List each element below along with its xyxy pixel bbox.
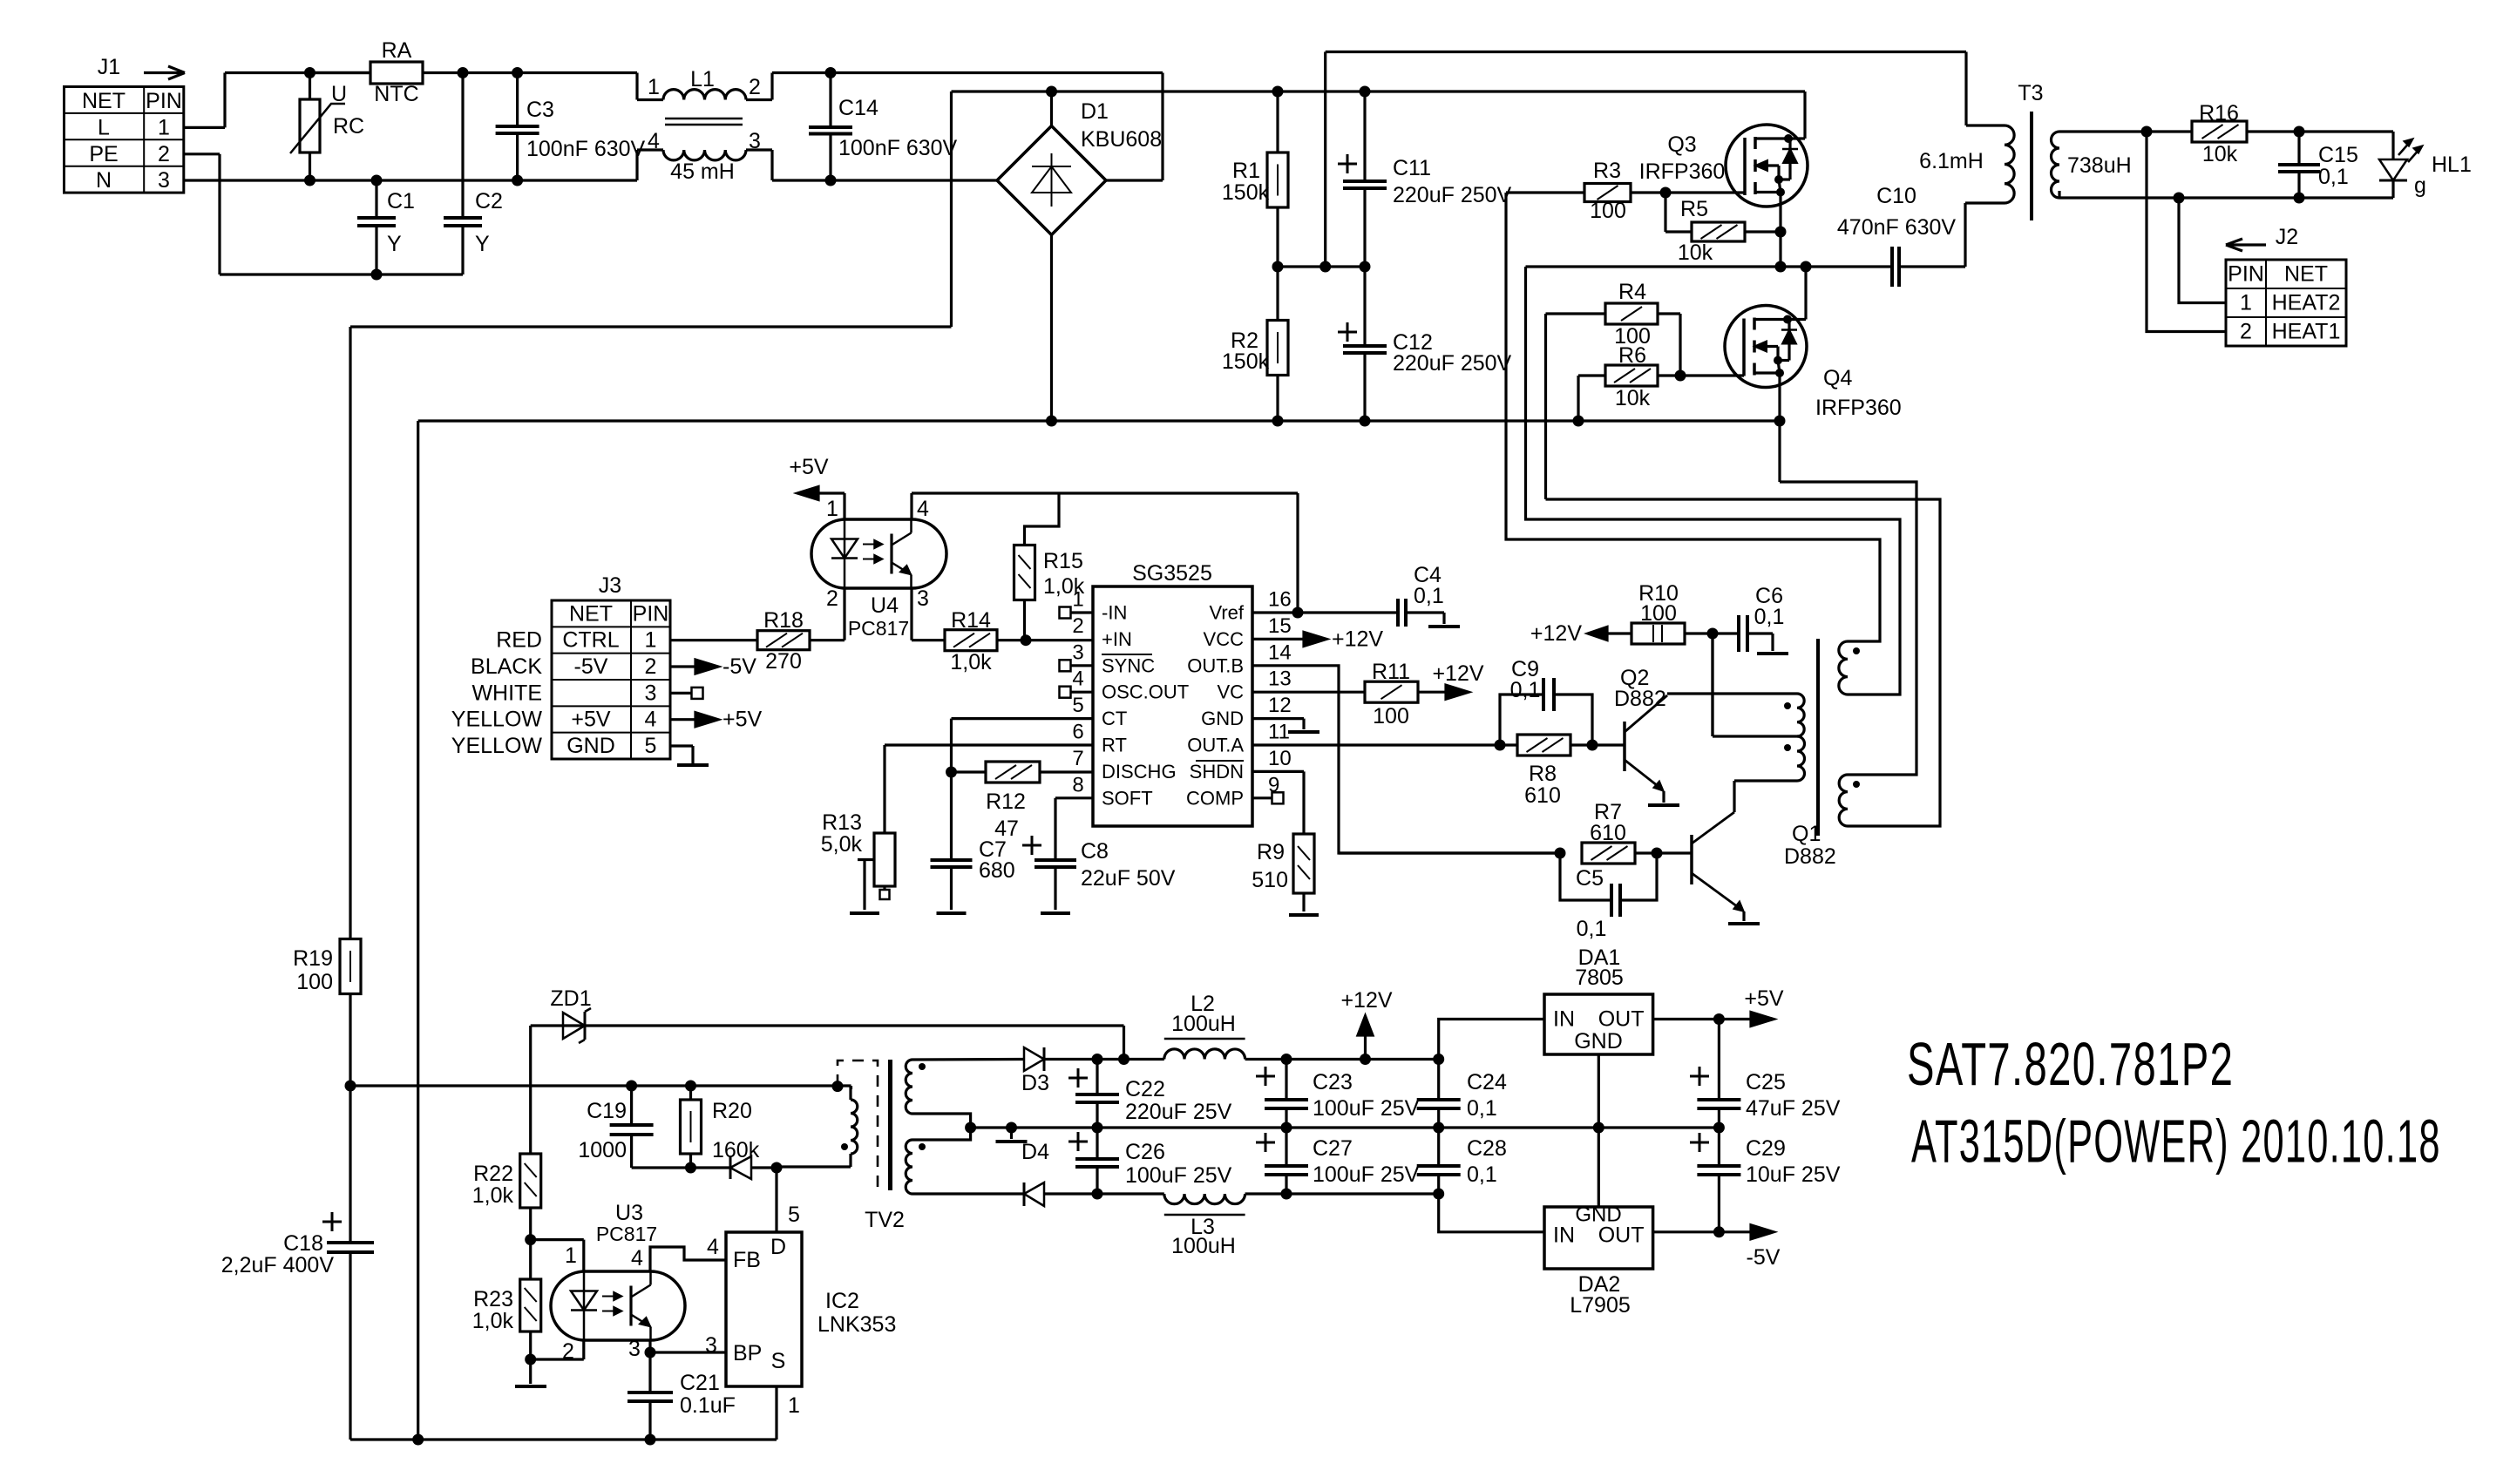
svg-text:RA: RA [382, 38, 412, 63]
svg-text:+5V: +5V [789, 455, 829, 479]
svg-text:R19: R19 [293, 946, 333, 971]
svg-text:AT315D(POWER) 2010.10.18: AT315D(POWER) 2010.10.18 [1911, 1108, 2441, 1176]
svg-text:SHDN: SHDN [1190, 761, 1244, 783]
svg-text:10k: 10k [1678, 241, 1713, 265]
svg-text:160k: 160k [712, 1138, 760, 1162]
svg-text:2: 2 [749, 75, 761, 99]
svg-text:R14: R14 [951, 608, 991, 633]
svg-text:100: 100 [1590, 199, 1626, 223]
svg-text:3: 3 [917, 586, 929, 611]
svg-text:7805: 7805 [1575, 966, 1624, 990]
svg-text:C29: C29 [1746, 1136, 1786, 1161]
svg-text:Vref: Vref [1209, 602, 1244, 624]
svg-text:4: 4 [631, 1246, 643, 1271]
svg-text:BLACK: BLACK [471, 654, 542, 679]
svg-text:D4: D4 [1021, 1140, 1049, 1164]
svg-text:PC817: PC817 [848, 617, 909, 640]
svg-text:IC2: IC2 [825, 1289, 859, 1313]
svg-text:3: 3 [158, 168, 170, 193]
svg-text:D: D [770, 1235, 786, 1259]
svg-text:J2: J2 [2276, 225, 2298, 249]
svg-text:100: 100 [296, 970, 333, 994]
svg-text:0,1: 0,1 [1414, 584, 1444, 608]
svg-text:510: 510 [1252, 868, 1288, 892]
svg-text:L: L [98, 115, 110, 139]
svg-text:-IN: -IN [1102, 602, 1127, 624]
svg-text:100: 100 [1640, 601, 1677, 626]
svg-text:NTC: NTC [374, 82, 418, 106]
svg-text:1: 1 [648, 75, 660, 99]
svg-text:SOFT: SOFT [1102, 787, 1153, 809]
svg-text:4: 4 [1072, 667, 1083, 691]
svg-text:VCC: VCC [1204, 628, 1245, 650]
svg-text:C14: C14 [838, 96, 878, 120]
svg-text:16: 16 [1268, 588, 1292, 612]
svg-text:R3: R3 [1593, 159, 1621, 183]
svg-text:14: 14 [1268, 640, 1292, 664]
svg-text:OSC.OUT: OSC.OUT [1102, 681, 1189, 703]
svg-text:1: 1 [645, 628, 657, 653]
svg-text:HEAT2: HEAT2 [2272, 291, 2341, 315]
svg-text:10uF 25V: 10uF 25V [1746, 1162, 1841, 1187]
svg-text:GND: GND [566, 734, 615, 758]
svg-text:DISCHG: DISCHG [1102, 761, 1177, 783]
svg-text:N: N [96, 168, 112, 193]
svg-text:LNK353: LNK353 [817, 1312, 896, 1337]
svg-text:IN: IN [1553, 1007, 1575, 1032]
svg-text:1: 1 [158, 115, 170, 139]
svg-text:R12: R12 [986, 789, 1026, 814]
svg-text:D1: D1 [1081, 99, 1109, 124]
svg-text:Y: Y [475, 232, 490, 256]
svg-text:GND: GND [1574, 1029, 1623, 1054]
svg-text:RC: RC [333, 114, 364, 139]
svg-text:6.1mH: 6.1mH [1919, 149, 1984, 173]
svg-text:270: 270 [765, 649, 802, 674]
svg-text:1,0k: 1,0k [472, 1309, 514, 1333]
svg-text:NET: NET [569, 602, 613, 627]
svg-text:PE: PE [89, 142, 118, 166]
svg-text:T3: T3 [2018, 81, 2043, 105]
svg-text:+12V: +12V [1530, 621, 1582, 646]
svg-text:SG3525: SG3525 [1132, 561, 1212, 586]
svg-text:R8: R8 [1529, 762, 1557, 786]
svg-text:6: 6 [1072, 721, 1083, 744]
svg-text:610: 610 [1590, 821, 1626, 845]
svg-text:1,0k: 1,0k [950, 650, 992, 674]
svg-text:100nF 630V: 100nF 630V [526, 137, 646, 161]
svg-text:IRFP360: IRFP360 [1639, 159, 1726, 184]
svg-text:0,1: 0,1 [2318, 165, 2349, 189]
svg-text:738uH: 738uH [2067, 153, 2132, 178]
svg-text:COMP: COMP [1186, 787, 1244, 809]
svg-text:4: 4 [707, 1235, 719, 1259]
svg-text:220uF 250V: 220uF 250V [1393, 351, 1512, 376]
svg-text:WHITE: WHITE [471, 681, 542, 705]
svg-text:2: 2 [158, 142, 170, 166]
svg-text:C18: C18 [283, 1231, 323, 1256]
svg-text:C19: C19 [587, 1099, 627, 1123]
svg-text:C27: C27 [1313, 1136, 1353, 1161]
svg-text:C22: C22 [1125, 1077, 1165, 1101]
svg-text:C24: C24 [1467, 1070, 1507, 1094]
svg-text:OUT.B: OUT.B [1187, 654, 1244, 676]
svg-text:OUT.A: OUT.A [1187, 735, 1244, 756]
svg-text:Q1: Q1 [1792, 822, 1821, 846]
svg-text:U4: U4 [871, 593, 899, 618]
svg-text:D882: D882 [1614, 687, 1666, 711]
svg-text:Q3: Q3 [1667, 132, 1696, 157]
svg-text:BP: BP [733, 1341, 762, 1365]
svg-text:R23: R23 [473, 1287, 513, 1311]
svg-text:470nF 630V: 470nF 630V [1837, 215, 1957, 240]
svg-text:3: 3 [628, 1337, 641, 1361]
svg-text:2,2uF 400V: 2,2uF 400V [221, 1253, 335, 1277]
svg-text:L1: L1 [690, 67, 715, 91]
svg-text:1: 1 [826, 497, 838, 521]
svg-text:0.1uF: 0.1uF [680, 1393, 736, 1418]
svg-text:PC817: PC817 [596, 1223, 657, 1245]
svg-text:1: 1 [788, 1393, 800, 1418]
svg-text:680: 680 [979, 858, 1015, 883]
svg-text:R20: R20 [712, 1099, 752, 1123]
svg-text:D3: D3 [1021, 1071, 1049, 1095]
svg-text:ZD1: ZD1 [550, 986, 591, 1011]
svg-text:10k: 10k [1615, 386, 1651, 410]
svg-text:-5V: -5V [1747, 1245, 1781, 1270]
svg-text:+5V: +5V [1744, 986, 1784, 1011]
svg-text:+5V: +5V [722, 708, 763, 732]
svg-text:0,1: 0,1 [1577, 917, 1607, 941]
svg-text:YELLOW: YELLOW [451, 708, 543, 732]
svg-text:-5V: -5V [574, 654, 608, 679]
svg-text:4: 4 [645, 708, 657, 732]
svg-text:3: 3 [1072, 640, 1083, 664]
svg-text:C8: C8 [1081, 839, 1109, 864]
svg-text:5: 5 [788, 1203, 800, 1227]
svg-text:SYNC: SYNC [1102, 654, 1155, 676]
svg-text:CTRL: CTRL [562, 628, 619, 653]
svg-text:IRFP360: IRFP360 [1815, 396, 1902, 420]
svg-text:L7905: L7905 [1570, 1293, 1631, 1318]
svg-text:3: 3 [749, 129, 761, 153]
svg-text:5: 5 [1072, 694, 1083, 717]
svg-text:47uF 25V: 47uF 25V [1746, 1096, 1841, 1121]
svg-text:220uF 25V: 220uF 25V [1125, 1100, 1232, 1124]
svg-text:1,0k: 1,0k [472, 1183, 514, 1208]
svg-text:HL1: HL1 [2432, 152, 2472, 177]
svg-text:PIN: PIN [633, 602, 669, 627]
svg-text:+5V: +5V [571, 708, 611, 732]
svg-text:IN: IN [1553, 1223, 1575, 1248]
svg-text:150k: 150k [1222, 180, 1270, 205]
svg-text:NET: NET [2284, 262, 2328, 287]
svg-text:12: 12 [1268, 694, 1292, 717]
svg-text:10k: 10k [2202, 142, 2238, 166]
svg-text:0,1: 0,1 [1467, 1096, 1497, 1121]
svg-text:RED: RED [496, 628, 542, 653]
svg-text:8: 8 [1072, 773, 1083, 796]
svg-text:GND: GND [1201, 708, 1244, 729]
svg-text:C1: C1 [387, 189, 415, 213]
svg-text:47: 47 [994, 817, 1019, 841]
svg-text:g: g [2414, 173, 2426, 198]
svg-text:100nF 630V: 100nF 630V [838, 136, 958, 160]
svg-text:RT: RT [1102, 735, 1127, 756]
svg-text:4: 4 [648, 129, 660, 153]
svg-text:C25: C25 [1746, 1070, 1786, 1094]
svg-text:Y: Y [387, 232, 402, 256]
svg-text:C21: C21 [680, 1371, 720, 1395]
svg-text:KBU608: KBU608 [1081, 127, 1162, 152]
svg-text:R5: R5 [1680, 197, 1708, 221]
svg-text:45 mH: 45 mH [670, 159, 735, 184]
svg-text:C28: C28 [1467, 1136, 1507, 1161]
svg-text:VC: VC [1217, 681, 1244, 703]
svg-text:1: 1 [2240, 291, 2252, 315]
svg-text:R18: R18 [763, 608, 804, 633]
svg-text:0,1: 0,1 [1754, 605, 1785, 629]
svg-text:100uF 25V: 100uF 25V [1313, 1162, 1420, 1187]
svg-text:J1: J1 [98, 55, 120, 79]
svg-text:13: 13 [1268, 667, 1292, 691]
svg-text:R4: R4 [1618, 280, 1646, 304]
svg-text:FB: FB [733, 1248, 761, 1272]
svg-text:100uH: 100uH [1171, 1234, 1236, 1258]
svg-text:10: 10 [1268, 747, 1292, 770]
svg-text:OUT: OUT [1598, 1223, 1645, 1248]
svg-text:2: 2 [1072, 614, 1083, 638]
svg-text:1: 1 [1072, 588, 1083, 612]
svg-text:U: U [331, 82, 347, 106]
svg-text:+12V: +12V [1432, 661, 1483, 686]
svg-text:7: 7 [1072, 747, 1083, 770]
svg-text:R6: R6 [1618, 343, 1646, 368]
svg-text:-5V: -5V [722, 654, 756, 679]
svg-text:610: 610 [1524, 783, 1561, 808]
svg-text:R16: R16 [2199, 101, 2239, 125]
svg-text:2: 2 [826, 586, 838, 611]
svg-text:5,0k: 5,0k [821, 832, 863, 857]
svg-text:SAT7.820.781P2: SAT7.820.781P2 [1907, 1030, 2234, 1099]
svg-text:1000: 1000 [578, 1138, 627, 1162]
svg-text:150k: 150k [1222, 349, 1270, 374]
svg-text:D882: D882 [1784, 844, 1836, 869]
svg-text:C15: C15 [2318, 143, 2358, 167]
svg-text:NET: NET [82, 89, 125, 113]
svg-text:100uF 25V: 100uF 25V [1313, 1096, 1420, 1121]
svg-text:C26: C26 [1125, 1140, 1165, 1164]
svg-text:15: 15 [1268, 614, 1292, 638]
svg-text:5: 5 [645, 734, 657, 758]
svg-text:1: 1 [565, 1243, 577, 1268]
svg-text:C10: C10 [1876, 184, 1916, 208]
svg-text:220uF 250V: 220uF 250V [1393, 183, 1512, 207]
svg-text:R22: R22 [473, 1162, 513, 1186]
svg-text:PIN: PIN [2228, 262, 2264, 287]
svg-text:+12V: +12V [1332, 627, 1383, 651]
svg-text:R11: R11 [1372, 660, 1410, 684]
svg-text:100: 100 [1373, 704, 1409, 728]
svg-text:Q4: Q4 [1823, 366, 1852, 390]
svg-text:R9: R9 [1257, 840, 1285, 864]
svg-text:C11: C11 [1393, 156, 1431, 180]
svg-text:C5: C5 [1576, 866, 1604, 891]
svg-text:PIN: PIN [146, 89, 182, 113]
svg-text:TV2: TV2 [865, 1208, 905, 1232]
svg-text:C3: C3 [526, 98, 554, 122]
svg-text:R15: R15 [1043, 549, 1083, 573]
svg-text:22uF 50V: 22uF 50V [1081, 866, 1176, 891]
svg-text:S: S [771, 1349, 786, 1373]
svg-text:0,1: 0,1 [1510, 678, 1541, 702]
svg-text:11: 11 [1268, 721, 1290, 744]
svg-text:R1: R1 [1232, 159, 1260, 183]
svg-text:3: 3 [645, 681, 657, 705]
svg-text:2: 2 [2240, 320, 2252, 344]
svg-text:0,1: 0,1 [1467, 1162, 1497, 1187]
svg-text:C2: C2 [475, 189, 503, 213]
svg-text:+12V: +12V [1340, 988, 1392, 1013]
svg-text:C23: C23 [1313, 1070, 1353, 1094]
svg-text:HEAT1: HEAT1 [2272, 320, 2341, 344]
svg-text:CT: CT [1102, 708, 1127, 729]
svg-text:+IN: +IN [1102, 628, 1132, 650]
svg-text:OUT: OUT [1598, 1007, 1645, 1032]
svg-text:3: 3 [705, 1333, 717, 1358]
svg-text:2: 2 [645, 654, 657, 679]
svg-text:R13: R13 [822, 810, 862, 835]
svg-text:J3: J3 [599, 573, 621, 598]
svg-text:YELLOW: YELLOW [451, 734, 543, 758]
svg-text:U3: U3 [615, 1201, 643, 1225]
svg-text:4: 4 [917, 497, 929, 521]
svg-text:100uF 25V: 100uF 25V [1125, 1163, 1232, 1188]
svg-text:100uH: 100uH [1171, 1012, 1236, 1036]
svg-text:2: 2 [562, 1339, 574, 1364]
